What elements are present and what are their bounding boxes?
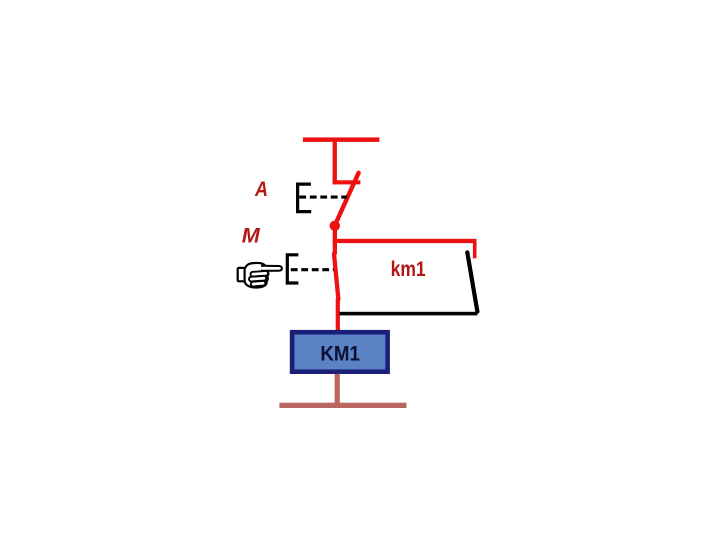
- dashed linkage of button A: [299, 196, 347, 199]
- wire: right stub down into km1 contact: [473, 239, 477, 258]
- wire: bottom power rail: [279, 403, 406, 408]
- svg-text:km1: km1: [391, 258, 426, 281]
- hand pointer icon (index finger): [261, 266, 282, 271]
- node: junction dot: [330, 221, 340, 231]
- hand pointer icon (curled finger 3): [251, 281, 266, 287]
- contact km1 blade: [467, 252, 477, 311]
- hand pointer icon (fist): [245, 263, 269, 288]
- wire: vertical drop from top rail to button A: [333, 140, 337, 184]
- wire: branch to km1 contact: [333, 239, 477, 243]
- coil KM1 box: [292, 332, 388, 372]
- wire: fixed-contact jog of button A: [333, 180, 361, 184]
- wire: top power rail: [303, 137, 380, 142]
- wire: coil KM1 to bottom rail: [335, 374, 340, 404]
- hand pointer icon (cuff): [238, 268, 245, 281]
- switch blade of NC stop button A: [335, 173, 359, 225]
- hand pointer icon (curled finger 1): [250, 271, 268, 277]
- actuator bracket of button M: [287, 255, 298, 283]
- svg-text:KM1: KM1: [320, 342, 360, 366]
- svg-text:A: A: [254, 178, 268, 201]
- actuator bracket of button A: [298, 184, 312, 212]
- hand pointer icon (curled finger 2): [249, 276, 266, 282]
- switch blade of NO start button M: [334, 254, 338, 300]
- dashed linkage of button M: [291, 268, 334, 271]
- wire: junction dot down to button M: [333, 228, 337, 255]
- wire: button M to coil KM1: [336, 299, 340, 332]
- wire: km1 bottom return (black): [340, 312, 478, 316]
- svg-text:M: M: [242, 225, 261, 248]
